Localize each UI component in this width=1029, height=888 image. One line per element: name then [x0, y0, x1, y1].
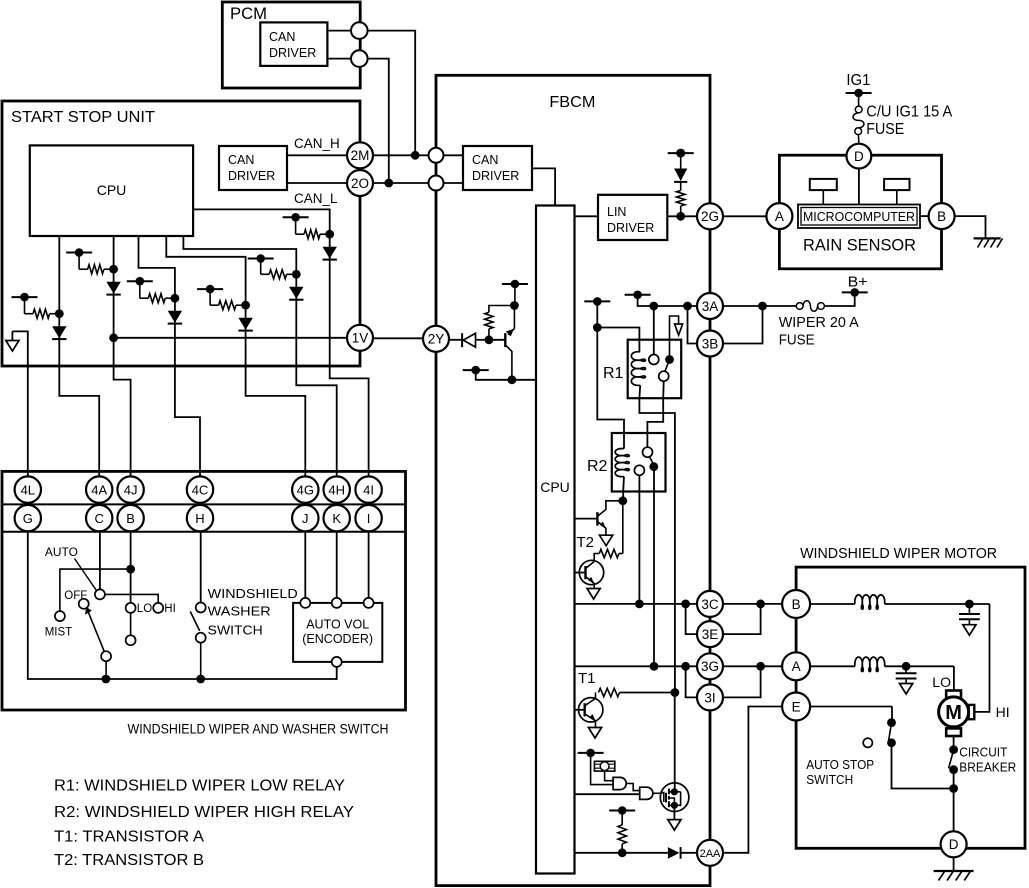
wire PCM CAN_H to junction — [368, 31, 416, 156]
svg-text:R2: WINDSHIELD WIPER HIGH RELA: R2: WINDSHIELD WIPER HIGH RELAY — [54, 804, 354, 821]
svg-text:SWITCH: SWITCH — [208, 623, 263, 638]
diode D2 to 2AA — [668, 847, 697, 859]
transistor T2 upper (Qa) — [575, 501, 619, 546]
wire 1V to 2Y — [373, 337, 423, 339]
transistor T1 — [575, 693, 603, 739]
svg-text:4H: 4H — [328, 482, 345, 497]
CAN driver (PCM) box — [260, 22, 327, 66]
svg-text:CPU: CPU — [97, 182, 127, 198]
AND gate G2 — [640, 787, 663, 799]
svg-text:4A: 4A — [91, 482, 107, 497]
wire C to AUTO contact — [99, 531, 101, 589]
ground arrow SSU — [6, 331, 19, 351]
node 4G — [292, 476, 318, 502]
svg-text:LIN: LIN — [607, 205, 626, 219]
wire MOSFET drain — [674, 696, 676, 791]
auto stop switch — [810, 707, 958, 793]
choke coil A — [810, 657, 954, 671]
wire cell F to 4I — [330, 234, 369, 476]
svg-text:OFF: OFF — [64, 590, 87, 602]
MICROCOMPUTER box — [798, 205, 920, 229]
wire 3E to junction — [723, 604, 761, 634]
wire CPU to 2AA — [575, 848, 668, 857]
wire ground to 4L — [12, 331, 27, 476]
node D — [847, 144, 872, 169]
wire CPU pin to cell E — [183, 236, 296, 274]
wire rail to 3A — [638, 295, 697, 311]
wire K to encoder — [336, 531, 338, 598]
svg-text:CIRCUIT: CIRCUIT — [959, 745, 1007, 760]
svg-text:K: K — [332, 511, 341, 526]
node K — [324, 505, 350, 531]
wire coil A to LO terminal — [953, 666, 955, 690]
ground (motor) — [934, 857, 974, 880]
svg-text:3A: 3A — [702, 299, 719, 314]
svg-text:WINDSHIELD WIPER AND WASHER SW: WINDSHIELD WIPER AND WASHER SWITCH — [128, 722, 389, 737]
svg-text:B+: B+ — [848, 273, 868, 290]
wire CAN driver to CPU — [532, 168, 555, 205]
svg-text:2G: 2G — [701, 209, 719, 224]
power tap — [625, 291, 651, 300]
wire power to opto collector — [514, 284, 516, 306]
motor M — [939, 691, 975, 737]
ground (rain sensor) — [974, 238, 1003, 247]
MOSFET source to ground — [668, 805, 681, 830]
svg-text:C/U IG1 15 A: C/U IG1 15 A — [866, 104, 953, 121]
svg-text:T1: T1 — [578, 670, 596, 687]
svg-text:4C: 4C — [192, 482, 209, 497]
svg-text:DRIVER: DRIVER — [228, 169, 275, 183]
wire cell E to 4H — [296, 274, 336, 476]
circuit breaker — [949, 736, 958, 789]
transistor T2 lower (Qb) — [575, 560, 604, 599]
capacitor A line — [896, 666, 917, 694]
svg-text:IG1: IG1 — [846, 72, 870, 89]
LIN driver box — [598, 195, 667, 240]
node 3C — [697, 591, 723, 617]
node 4A — [86, 476, 112, 502]
svg-text:HI: HI — [164, 603, 176, 615]
wire cell C to 4C — [175, 298, 200, 476]
svg-text:MIST: MIST — [45, 627, 72, 639]
wire CPU pin to cell A — [58, 236, 60, 314]
svg-text:R1: WINDSHIELD WIPER LOW RELAY: R1: WINDSHIELD WIPER LOW RELAY — [54, 778, 345, 795]
svg-text:G: G — [23, 511, 33, 526]
svg-text:CAN: CAN — [228, 153, 254, 167]
wire power to gate input — [591, 753, 614, 785]
svg-text:B: B — [937, 209, 946, 224]
encoder box — [293, 598, 382, 667]
svg-text:PCM: PCM — [230, 4, 267, 23]
node 4H — [324, 476, 350, 502]
node A — [766, 203, 792, 229]
svg-text:J: J — [302, 511, 309, 526]
svg-text:CAN_L: CAN_L — [294, 191, 338, 206]
oscillator block — [594, 761, 614, 780]
svg-text:WINDSHIELD WIPER MOTOR: WINDSHIELD WIPER MOTOR — [800, 545, 997, 562]
choke coil B — [810, 595, 989, 609]
svg-text:A: A — [775, 209, 784, 224]
svg-text:FUSE: FUSE — [866, 121, 904, 138]
wire CAN driver to 2M — [287, 154, 347, 156]
capacitor B line — [959, 604, 980, 635]
node 4I — [355, 476, 381, 502]
node 3B — [697, 331, 723, 357]
svg-text:3B: 3B — [702, 336, 719, 351]
label AUTO with leader — [45, 547, 96, 590]
wire MIST feed — [60, 569, 131, 611]
PCM pin circle upper — [351, 22, 368, 39]
node B — [117, 505, 143, 531]
wire CPU to gate G2 — [575, 793, 640, 795]
svg-text:B: B — [126, 511, 135, 526]
wiper switch arm — [85, 607, 111, 679]
svg-text:HI: HI — [996, 704, 1010, 720]
svg-text:C: C — [95, 511, 104, 526]
relay R2 box — [612, 433, 666, 492]
svg-text:D: D — [949, 837, 959, 852]
resistor-diode cell A — [12, 293, 67, 339]
relay R1 coil — [631, 352, 645, 386]
power tap — [578, 749, 604, 758]
relay R1 box — [628, 340, 682, 399]
wire 3I branch — [686, 666, 697, 697]
svg-text:DRIVER: DRIVER — [269, 46, 316, 60]
resistor-diode cell F — [283, 213, 337, 260]
svg-text:CAN_H: CAN_H — [294, 136, 340, 151]
wire I to encoder — [368, 531, 370, 598]
wire B to ground — [955, 216, 986, 238]
node 4C — [187, 476, 213, 502]
CPU U2 box (FBCM) — [536, 206, 575, 874]
fuse label — [866, 104, 953, 139]
label WINDSHIELD WASHER SWITCH — [208, 586, 298, 638]
wire CPU pin to cell C — [139, 236, 175, 298]
wire 3G to motor A — [723, 662, 782, 671]
label AUTO STOP SWITCH — [806, 757, 874, 787]
PCM pin circle lower — [351, 50, 368, 67]
svg-text:2AA: 2AA — [700, 848, 721, 860]
AND gate G1 — [613, 777, 640, 790]
wire rail to R1/R2 coils — [593, 301, 640, 448]
wire fuse to 3A — [723, 305, 763, 307]
svg-text:FBCM: FBCM — [549, 94, 595, 111]
svg-text:WASHER: WASHER — [208, 604, 271, 619]
wire cell A to 4A — [59, 314, 99, 477]
svg-text:M: M — [945, 702, 962, 724]
relay R1 contacts — [649, 316, 683, 381]
wire G to common bus — [28, 531, 337, 683]
svg-text:CAN: CAN — [269, 30, 295, 44]
wire CPU pin to cell B — [113, 236, 115, 269]
wire CPU pin to cell F — [193, 209, 330, 234]
wire CAN_H bus — [373, 151, 429, 160]
junction cell B / 1V — [109, 333, 118, 342]
node H — [187, 505, 213, 531]
svg-text:2O: 2O — [351, 176, 369, 191]
node B — [782, 590, 810, 618]
node 4L — [15, 476, 41, 502]
wire CAN driver to 2O — [287, 182, 347, 184]
svg-text:4L: 4L — [21, 482, 35, 497]
svg-text:A: A — [792, 659, 801, 674]
wire J to encoder — [304, 531, 306, 598]
wire 2AA to motor E — [723, 707, 782, 853]
svg-text:T2: T2 — [577, 534, 595, 551]
svg-text:AUTO VOL: AUTO VOL — [306, 618, 369, 632]
junction wiper fuse — [758, 302, 767, 311]
fuse C/U IG1 — [853, 93, 864, 144]
svg-text:AUTO STOP: AUTO STOP — [806, 757, 874, 772]
wire cell D to 4G — [246, 305, 306, 476]
power tap — [846, 89, 872, 98]
svg-text:T2: TRANSISTOR B: T2: TRANSISTOR B — [54, 852, 204, 869]
wire 3I to junction — [723, 666, 761, 697]
FBCM box — [436, 75, 710, 885]
node J — [292, 505, 318, 531]
node 3A — [697, 293, 723, 319]
svg-text:R1: R1 — [603, 365, 624, 382]
svg-text:R2: R2 — [587, 458, 608, 475]
2AA pullup resistor — [618, 811, 626, 853]
sensor element left — [810, 179, 837, 205]
power tap — [502, 280, 528, 289]
svg-text:D: D — [854, 149, 864, 164]
svg-text:LO: LO — [137, 603, 152, 615]
junction circle CAN_H on FBCM edge — [429, 148, 444, 163]
switch unit box — [2, 471, 406, 710]
wire 3A branch to 3B — [688, 306, 698, 344]
svg-text:T1: TRANSISTOR A: T1: TRANSISTOR A — [54, 829, 204, 846]
power tap — [842, 288, 868, 297]
CPU U1 box — [30, 145, 193, 236]
wire PCM CAN_L to junction — [368, 59, 389, 183]
PCM box — [222, 2, 360, 88]
power tap — [584, 297, 610, 306]
svg-text:B: B — [792, 597, 801, 612]
fuse WIPER 20A — [766, 301, 824, 312]
node 3I — [697, 684, 723, 710]
node E — [782, 693, 810, 721]
svg-text:(ENCODER): (ENCODER) — [302, 632, 373, 646]
START STOP UNIT box — [2, 101, 360, 366]
opto phototransistor Q — [489, 306, 515, 376]
node C — [86, 505, 112, 531]
wire R2 coil to T2 node — [618, 477, 627, 506]
wire CPU to 3C — [575, 600, 698, 609]
svg-text:1V: 1V — [352, 331, 369, 346]
power tap — [609, 806, 635, 815]
node 2M — [347, 142, 373, 168]
node 1V — [347, 325, 373, 351]
relay R2 contacts — [634, 447, 658, 475]
wire CPU pin to cell D — [166, 236, 245, 305]
svg-text:START STOP UNIT: START STOP UNIT — [11, 109, 155, 126]
node 2Y — [423, 326, 449, 352]
wire fuse branch to 3B — [723, 306, 763, 344]
wire B+ to fuse — [824, 292, 854, 306]
node 2O — [347, 170, 373, 196]
wire D to microcomputer — [858, 169, 860, 205]
wire coil B to HI terminal — [976, 604, 990, 712]
T2 collector resistor — [594, 501, 623, 561]
node 3E — [697, 621, 723, 647]
motor box — [796, 567, 1025, 848]
wire microcomputer to B — [920, 215, 929, 217]
relay R2 coil — [615, 449, 629, 477]
wire 1V line — [114, 337, 347, 339]
wire R2 NC to 3C line — [638, 475, 640, 604]
resistor-diode cell D — [197, 285, 253, 331]
svg-text:2Y: 2Y — [428, 332, 445, 347]
svg-text:4G: 4G — [297, 482, 314, 497]
svg-text:FUSE: FUSE — [779, 332, 815, 349]
wire breaker to D — [953, 789, 955, 832]
CAN driver (FBCM) box — [463, 146, 532, 190]
opto base resistor — [485, 301, 519, 336]
wire R2 arm to 3G line — [653, 467, 655, 667]
wiper switch contacts — [55, 589, 163, 645]
svg-text:RAIN SENSOR: RAIN SENSOR — [803, 236, 916, 255]
junction circle CAN_L on FBCM edge — [429, 176, 444, 191]
wire CPU to 3G — [575, 662, 698, 671]
resistor-diode cell C — [127, 277, 182, 324]
svg-text:DRIVER: DRIVER — [607, 221, 654, 235]
wire opto emitter to CPU — [476, 370, 536, 384]
T1 base resistor — [599, 688, 680, 697]
node 3G — [697, 653, 723, 679]
wire cell B to 4J — [114, 269, 131, 476]
svg-text:4I: 4I — [363, 482, 374, 497]
svg-text:CPU: CPU — [540, 479, 570, 495]
svg-text:H: H — [195, 511, 204, 526]
wire 2G to rain sensor A — [723, 215, 766, 217]
svg-text:WINDSHIELD: WINDSHIELD — [208, 586, 298, 601]
svg-text:CAN: CAN — [472, 153, 498, 167]
washer switch — [190, 603, 205, 680]
node B — [929, 203, 955, 229]
connector strip dividers — [2, 504, 406, 531]
node 4J — [117, 476, 143, 502]
wire R1 coil to T1 node — [639, 385, 675, 688]
node A — [782, 652, 810, 680]
svg-text:DRIVER: DRIVER — [472, 169, 519, 183]
label CIRCUIT BREAKER — [959, 745, 1016, 775]
junction opto base — [485, 335, 494, 344]
wire 3C to motor B — [723, 600, 782, 609]
pull-up diode-resistor at 2G — [668, 149, 694, 217]
node G — [15, 505, 41, 531]
svg-text:E: E — [792, 699, 801, 714]
wire CAN driver to PCM pins — [327, 31, 351, 59]
wire R1 arm to R2 common — [647, 381, 663, 447]
svg-text:MICROCOMPUTER: MICROCOMPUTER — [803, 210, 915, 224]
wire CPU to LIN driver — [575, 215, 599, 217]
svg-text:4J: 4J — [124, 482, 138, 497]
svg-text:AUTO: AUTO — [45, 547, 78, 559]
svg-text:3E: 3E — [702, 627, 719, 642]
wire LIN driver to 2G — [667, 212, 697, 221]
RAIN SENSOR box — [779, 155, 941, 269]
svg-text:I: I — [367, 511, 371, 526]
wire CAN_L bus — [373, 179, 429, 188]
power tap — [463, 366, 489, 375]
resistor-diode cell E — [248, 254, 304, 300]
sensor element right — [884, 179, 909, 205]
svg-text:SWITCH: SWITCH — [806, 772, 853, 787]
CAN driver (SSU) box — [219, 146, 287, 190]
svg-text:BREAKER: BREAKER — [959, 760, 1016, 775]
wire B to LO — [126, 531, 135, 603]
node I — [355, 505, 381, 531]
svg-text:3G: 3G — [701, 659, 719, 674]
node D — [941, 831, 967, 857]
node 2AA — [697, 840, 723, 866]
MOSFET Q3 — [660, 783, 689, 812]
wire to R1 common contact — [653, 306, 655, 354]
wire 3E branch — [686, 604, 697, 634]
opto diode D1 — [449, 333, 485, 347]
svg-text:LO: LO — [932, 674, 951, 690]
resistor-diode cell B — [66, 248, 121, 294]
svg-text:WIPER 20 A: WIPER 20 A — [779, 314, 859, 331]
wire to CAN driver FBCM — [444, 155, 464, 183]
svg-text:2M: 2M — [351, 148, 370, 163]
svg-text:3I: 3I — [704, 690, 715, 705]
node 2G — [697, 203, 723, 229]
svg-text:3C: 3C — [701, 597, 719, 612]
fuse label WIPER 20 A — [779, 314, 859, 349]
wire H to washer switch — [200, 531, 202, 602]
